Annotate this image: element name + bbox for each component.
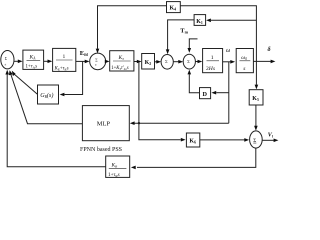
wire delta to K1 xyxy=(211,19,256,21)
svg-text:2Hs: 2Hs xyxy=(206,66,215,72)
summer S1 (field circuit input) xyxy=(90,53,106,70)
wire S1 to K3 xyxy=(105,60,107,62)
block GB(s) exciter stabilizer xyxy=(38,85,59,104)
block exciter 1/(KE+tauE s) xyxy=(53,48,76,71)
wire exciter to S1 (Efd node) xyxy=(76,60,85,62)
wire 2Hs to omega0/s (omega node) xyxy=(223,61,231,63)
svg-text:K6: K6 xyxy=(189,139,196,145)
svg-text:ω0: ω0 xyxy=(241,55,247,61)
svg-text:Σ: Σ xyxy=(5,57,8,61)
block KR transducer KR/(1+tauR s) xyxy=(106,156,130,177)
wire S3 to 1/(2Hs) xyxy=(195,61,198,63)
svg-text:Σ: Σ xyxy=(253,138,256,144)
wire Efd tap to GB xyxy=(64,61,82,94)
junction dot E'q/omega lines xyxy=(138,122,140,124)
svg-text:ω: ω xyxy=(226,48,230,54)
wire D output to S3 bottom xyxy=(189,74,199,93)
svg-text:1: 1 xyxy=(63,54,66,60)
svg-text:δ: δ xyxy=(268,47,271,53)
block MLP xyxy=(82,106,129,141)
svg-text:Tm: Tm xyxy=(180,28,188,35)
svg-text:Σ: Σ xyxy=(95,58,98,63)
wire delta branch vertical (right) xyxy=(180,6,256,62)
summer S3 (Tm, D sum) xyxy=(183,54,195,69)
svg-text:GB(s): GB(s) xyxy=(40,92,53,99)
svg-text:KE+τEs: KE+τEs xyxy=(54,66,69,71)
wire E'q tap vertical to K6 xyxy=(139,62,181,140)
wire K5 to S5 top xyxy=(255,105,257,126)
svg-text:Σ: Σ xyxy=(187,59,190,64)
wire K2 to S2 xyxy=(155,61,157,63)
block K5 xyxy=(249,90,263,105)
svg-text:Σ: Σ xyxy=(165,59,168,64)
svg-text:±: ± xyxy=(95,63,97,67)
wire KR output to S0 bottom xyxy=(7,74,106,167)
wire K1 output to S2 top xyxy=(168,20,195,50)
block K6 xyxy=(186,133,199,147)
svg-text:s: s xyxy=(243,66,245,72)
wire S2 to S3 xyxy=(173,61,179,63)
wire KA to exciter xyxy=(44,60,48,62)
wire delta output xyxy=(253,60,271,62)
block KA (amplifier KA/(1+tauA s)) xyxy=(23,50,44,69)
svg-text:KR: KR xyxy=(111,162,119,168)
wire S5 bottom to KR (Vt feedback) xyxy=(137,148,256,167)
block D (damping) xyxy=(200,88,211,99)
svg-text:K4: K4 xyxy=(170,6,177,12)
wire K6 to S5 xyxy=(200,139,245,141)
svg-text:KA: KA xyxy=(29,55,37,61)
block K1 xyxy=(194,15,206,26)
block inertia 1/(2Hs) xyxy=(203,49,223,73)
block K3 field (K3/(1+K3 t'do s)) xyxy=(110,51,134,71)
wire K3 to K2 (E'q node) xyxy=(134,61,138,63)
svg-text:K5: K5 xyxy=(252,96,259,102)
wire delta vertical to K5 xyxy=(255,61,257,84)
summer S2 (torque sum K1,K2) xyxy=(161,55,173,70)
svg-text:Vt: Vt xyxy=(268,133,274,139)
svg-text:FPNN based PSS: FPNN based PSS xyxy=(80,147,122,153)
svg-text:MLP: MLP xyxy=(97,121,111,128)
wire GB output diagonal to S0 xyxy=(13,73,37,94)
svg-text:1: 1 xyxy=(211,55,214,61)
svg-text:Efd: Efd xyxy=(80,50,89,57)
svg-text:1+K3τ′dos: 1+K3τ′dos xyxy=(111,66,129,71)
svg-text:1+τRs: 1+τRs xyxy=(108,172,120,178)
block omega0/s xyxy=(236,49,253,73)
block K4 xyxy=(167,2,181,13)
wire MLP output to S0 diagonal xyxy=(11,73,83,123)
wire K4 output to S1 top xyxy=(98,6,167,49)
block K2 xyxy=(142,54,155,70)
wire omega tap vertical xyxy=(228,62,230,123)
wire Tm input elbow to S3 top xyxy=(189,39,197,48)
wire Vt output xyxy=(262,139,274,141)
svg-text:1+τAs: 1+τAs xyxy=(26,65,38,70)
summer S0 (AVR input) xyxy=(1,51,14,69)
wire omega to D xyxy=(216,92,229,94)
wire omega to MLP xyxy=(134,122,229,124)
svg-text:K1: K1 xyxy=(196,19,203,25)
wire S0 to KA xyxy=(14,60,19,62)
summer S5 (voltage sum) xyxy=(250,131,263,148)
svg-text:K3: K3 xyxy=(118,55,125,61)
svg-text:±: ± xyxy=(4,62,6,66)
svg-text:D: D xyxy=(203,91,208,98)
svg-text:K2: K2 xyxy=(145,60,152,66)
